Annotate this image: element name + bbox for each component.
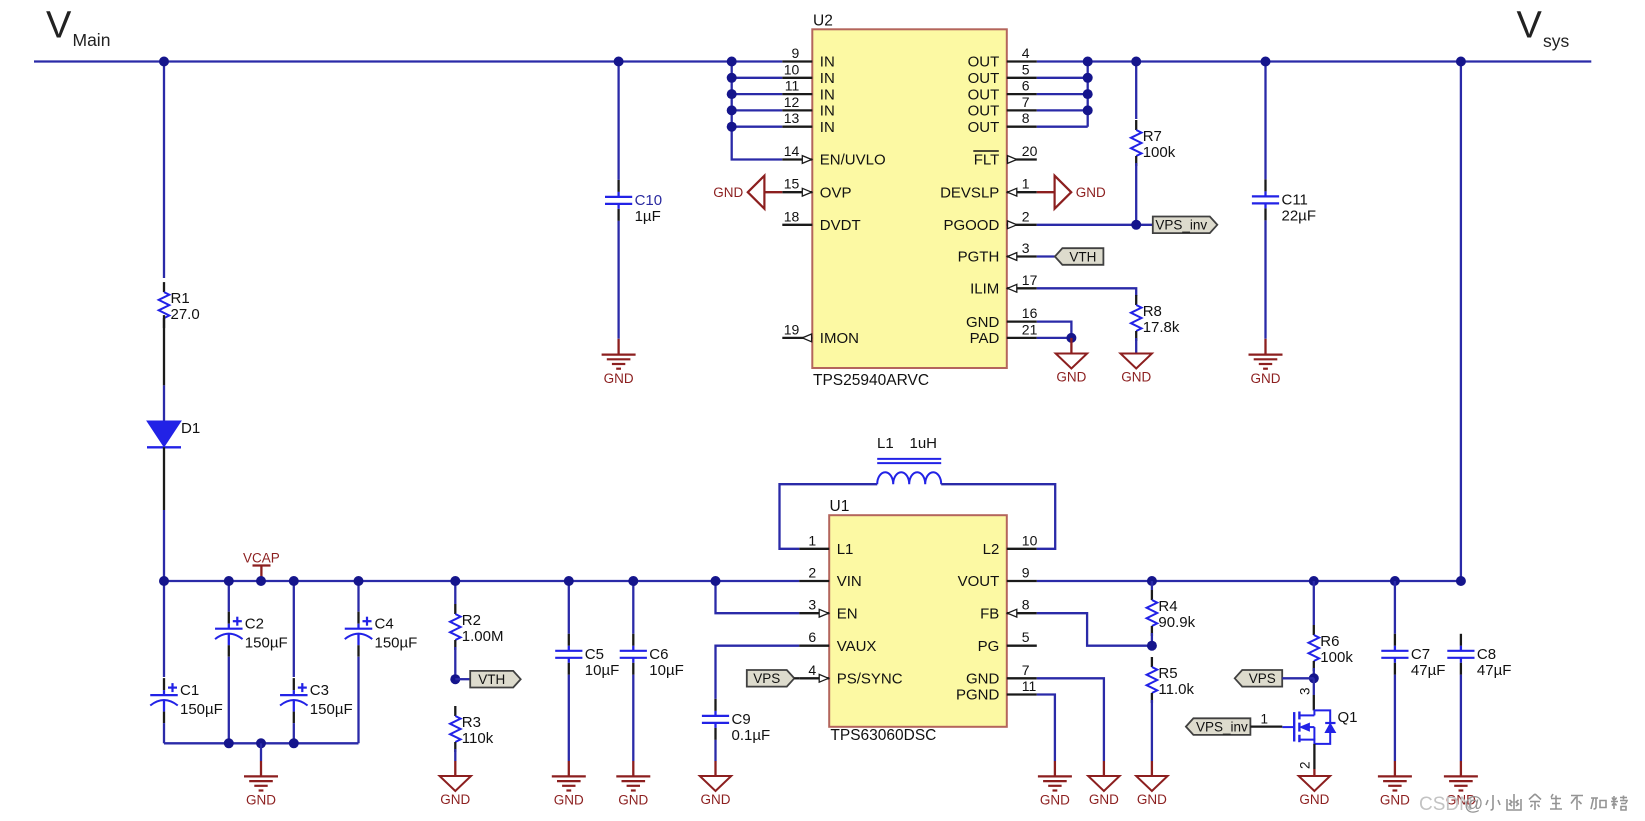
wire C4 to rail (357, 657, 359, 744)
svg-text:GND: GND (1089, 792, 1119, 807)
wire PGOOD to VPS_inv (1037, 224, 1153, 226)
U1 pin 8 FB (980, 597, 1037, 623)
svg-text:1.00M: 1.00M (462, 628, 504, 645)
gnd lead R3 (454, 761, 456, 776)
svg-text:7: 7 (1022, 94, 1030, 110)
svg-text:4: 4 (808, 662, 816, 678)
svg-text:100k: 100k (1143, 144, 1176, 161)
svg-text:11: 11 (785, 78, 800, 94)
ground earth C5 (552, 776, 586, 807)
junction dots lower bus (159, 576, 1466, 586)
svg-text:OUT: OUT (968, 103, 1000, 120)
wire Vsys column to VOUT bus (1460, 62, 1462, 582)
gnd lead pin11 (1054, 761, 1056, 776)
net label VPS_inv at PGOOD (1153, 217, 1218, 234)
wire IN fan vertical (732, 62, 783, 160)
U2 pin 11 IN (782, 78, 835, 104)
svg-text:90.9k: 90.9k (1158, 614, 1195, 631)
svg-text:GND: GND (966, 314, 1000, 331)
svg-text:150µF: 150µF (180, 701, 223, 718)
svg-text:3: 3 (1022, 240, 1030, 256)
svg-text:C9: C9 (732, 711, 751, 728)
wire R7 column from top bus (1135, 62, 1137, 120)
svg-text:1: 1 (1022, 176, 1030, 192)
junction VTH node (450, 674, 460, 684)
svg-text:R4: R4 (1158, 598, 1177, 615)
gnd flag at U2 DEVSLP pin 1 (1037, 176, 1106, 209)
gnd lead C9 (714, 761, 716, 776)
svg-text:0.1µF: 0.1µF (732, 727, 771, 744)
watermark CSDN @ xiaoyouyushengbujiatang (1419, 794, 1627, 815)
U2 pin 2 PGOOD (943, 208, 1036, 234)
U2 pin 13 IN (782, 110, 835, 136)
wire R7 to PGOOD net (1135, 163, 1137, 225)
svg-text:4: 4 (1022, 45, 1030, 61)
svg-text:13: 13 (784, 110, 800, 126)
svg-text:R1: R1 (171, 290, 190, 307)
svg-text:VAUX: VAUX (837, 638, 877, 655)
svg-text:OVP: OVP (820, 184, 852, 201)
Q1 source lead (1313, 744, 1315, 769)
svg-text:C11: C11 (1282, 192, 1308, 209)
svg-text:VTH: VTH (1069, 249, 1096, 264)
svg-text:PGTH: PGTH (958, 249, 1000, 266)
wire top bus left (VMain to U2 IN) (34, 60, 782, 62)
diode D1 (147, 420, 200, 510)
power net V_sys (1517, 5, 1570, 52)
wire C6 column from bus (632, 581, 634, 634)
svg-text:TPS63060DSC: TPS63060DSC (830, 727, 936, 744)
svg-text:PGOOD: PGOOD (943, 217, 999, 234)
wire rail to GND stem (260, 743, 262, 761)
svg-text:GND: GND (246, 793, 276, 808)
svg-text:VPS: VPS (1249, 671, 1276, 686)
U2 pin 16 GND (966, 305, 1038, 331)
svg-text:10: 10 (784, 61, 800, 77)
U2 pin 6 OUT (968, 78, 1037, 104)
ground triangle PAD (1056, 354, 1087, 385)
ground earth C11 (1249, 355, 1283, 386)
wire C5 to GND (568, 675, 570, 761)
svg-text:R8: R8 (1143, 303, 1162, 320)
U1 pin 4 PS/SYNC (799, 662, 903, 688)
junction dots OUT fan (1083, 57, 1093, 116)
svg-text:1µF: 1µF (635, 208, 661, 225)
svg-text:10µF: 10µF (649, 662, 684, 679)
wire C7 to GND (1394, 675, 1396, 761)
wire C2 to rail (228, 657, 230, 744)
wire U1 PGND pin11 down (1037, 695, 1055, 762)
svg-text:OUT: OUT (968, 86, 1000, 103)
wire OUT pin 7 branch (1037, 109, 1088, 111)
U2 pin 17 ILIM (970, 272, 1037, 298)
svg-text:VPS: VPS (753, 671, 780, 686)
svg-text:OUT: OUT (968, 70, 1000, 87)
U1 pin 10 L2 (983, 532, 1038, 558)
wire U1 GND pin7 down (1037, 678, 1104, 761)
gnd lead C5 (568, 761, 570, 776)
svg-text:9: 9 (792, 45, 800, 61)
svg-text:GND: GND (440, 792, 470, 807)
U2 pin 9 IN (782, 45, 835, 71)
svg-text:2: 2 (808, 565, 816, 581)
capacitor C2 150uF (215, 612, 288, 657)
svg-text:R2: R2 (462, 612, 481, 629)
svg-text:110k: 110k (462, 730, 494, 747)
svg-text:6: 6 (1022, 78, 1030, 94)
junction PGOOD R7 (1131, 220, 1141, 230)
svg-text:PGND: PGND (956, 687, 1000, 704)
svg-text:1uH: 1uH (910, 435, 938, 452)
wire R1 to D1 (163, 385, 165, 421)
U2 pin 21 PAD (970, 321, 1038, 347)
svg-text:L2: L2 (983, 541, 1000, 558)
svg-text:22µF: 22µF (1282, 208, 1317, 225)
resistor R8 17.8k (1131, 295, 1180, 341)
svg-text:C8: C8 (1477, 646, 1496, 663)
gnd lead R5 (1151, 761, 1153, 776)
ground earth rail (244, 776, 278, 807)
svg-text:R7: R7 (1143, 128, 1162, 145)
svg-text:R5: R5 (1158, 665, 1177, 682)
gnd lead C11 (1264, 339, 1266, 355)
svg-text:7: 7 (1022, 662, 1030, 678)
U1 pin 5 PG (978, 629, 1037, 655)
gnd lead C7 (1394, 761, 1396, 776)
resistor R4 90.9k (1147, 590, 1196, 636)
gnd flag at U2 OVP pin 15 (713, 176, 782, 209)
wire R3 to GND (454, 749, 456, 761)
op-amp U2 TPS25940ARVC body (812, 29, 1007, 368)
svg-text:VCAP: VCAP (243, 551, 280, 566)
capacitor C2 column wire (228, 581, 230, 612)
ground earth C7 (1378, 776, 1412, 807)
svg-text:V: V (1517, 5, 1543, 47)
wire IN pin 13 branch (732, 126, 783, 128)
svg-text:3: 3 (808, 597, 816, 613)
wire U1 pin1 to inductor L1 (780, 484, 878, 549)
resistor R7 100k (1131, 120, 1176, 166)
junction dots bottom rail (224, 738, 299, 748)
svg-text:150µF: 150µF (245, 635, 288, 652)
wire C9 to GND (714, 740, 716, 761)
capacitor C4 150uF (345, 612, 418, 657)
U1 pin 3 EN (799, 597, 857, 623)
ground earth pin11 (1038, 776, 1072, 807)
U1 pin 9 VOUT (958, 565, 1037, 591)
ground triangle R5 (1136, 776, 1167, 807)
svg-text:10: 10 (1022, 532, 1038, 548)
U2 pin 10 IN (782, 61, 835, 87)
wire U2 PAD pin 21 (1037, 337, 1072, 339)
junction dots IN fan (727, 57, 737, 132)
wire D1 to lower bus (163, 510, 165, 581)
svg-text:V: V (46, 5, 72, 47)
gnd lead C8 (1460, 761, 1462, 776)
svg-text:L1: L1 (877, 435, 894, 452)
svg-text:VPS_inv: VPS_inv (1196, 719, 1248, 734)
U2 pin 12 IN (782, 94, 835, 120)
U1 pin 1 L1 (799, 532, 853, 558)
svg-text:@: @ (1464, 794, 1483, 815)
wire C10 column from top bus (617, 62, 619, 180)
svg-text:TPS25940ARVC: TPS25940ARVC (813, 372, 929, 389)
svg-text:14: 14 (784, 143, 800, 159)
svg-text:OUT: OUT (968, 54, 1000, 71)
svg-text:GND: GND (618, 793, 648, 808)
gnd lead rail (260, 761, 262, 776)
net label VTH at R2 R3 (470, 671, 521, 688)
U2 pin 5 OUT (968, 61, 1037, 87)
wire C8 to GND (1460, 675, 1462, 761)
gnd lead PAD (1070, 338, 1072, 354)
gnd lead pin7 (1103, 761, 1105, 776)
wire R8 to GND (1135, 338, 1137, 354)
wire OUT fan vertical (1087, 62, 1089, 127)
svg-text:VPS_inv: VPS_inv (1155, 218, 1207, 233)
svg-text:GND: GND (1251, 371, 1281, 386)
resistor R2 1.00M (450, 604, 504, 650)
U2 pin 15 OVP (782, 176, 851, 202)
inductor L1 1uH (877, 435, 941, 484)
svg-text:GND: GND (1380, 793, 1410, 808)
ground earth C6 (616, 776, 650, 807)
capacitor C1 150uF column wire (163, 581, 165, 677)
svg-text:ILIM: ILIM (970, 281, 999, 298)
svg-text:8: 8 (1022, 110, 1030, 126)
wire OUT pin 5 branch (1037, 77, 1088, 79)
svg-text:150µF: 150µF (375, 635, 418, 652)
transistor Q1 MOSFET (1282, 709, 1357, 744)
ground triangle pin7 (1088, 776, 1119, 807)
U2 pin 19 IMON (782, 321, 859, 347)
svg-text:IMON: IMON (820, 330, 859, 347)
svg-text:GND: GND (1056, 370, 1086, 385)
svg-text:VTH: VTH (478, 672, 505, 687)
junction PAD (1066, 333, 1076, 343)
wire lower bus left (VCAP rail) (164, 580, 799, 582)
svg-text:10µF: 10µF (585, 662, 620, 679)
wire IN pin 10 branch (732, 77, 783, 79)
svg-text:21: 21 (1022, 321, 1038, 337)
svg-text:IN: IN (820, 119, 835, 136)
wire C6 to GND (632, 675, 634, 761)
svg-text:L1: L1 (837, 541, 854, 558)
capacitor C10 1uF (605, 180, 662, 225)
wire R4 to node (1151, 633, 1153, 646)
svg-text:1: 1 (808, 532, 816, 548)
wire C1 to rail (163, 723, 165, 743)
wire VPS tag to pin 4 (794, 677, 799, 679)
op-amp U1 TPS63060DSC body (829, 515, 1007, 727)
svg-text:GND: GND (713, 185, 743, 200)
U2 pin 4 OUT (968, 45, 1037, 71)
svg-text:12: 12 (784, 94, 800, 110)
svg-text:150µF: 150µF (310, 701, 353, 718)
wire VTH node to tag (455, 678, 470, 680)
svg-text:Main: Main (73, 30, 111, 50)
svg-text:U1: U1 (830, 498, 850, 515)
wire PGTH to VTH tag (1037, 255, 1055, 257)
wire R6 column from VOUT bus (1313, 581, 1315, 625)
svg-text:5: 5 (1022, 629, 1030, 645)
svg-text:DVDT: DVDT (820, 217, 861, 234)
wire top bus right (U2 OUT to Vsys) (1037, 60, 1592, 62)
junction VPS node (1309, 673, 1319, 683)
wire IN pin 12 branch (732, 109, 783, 111)
svg-text:R6: R6 (1320, 633, 1339, 650)
svg-text:GND: GND (966, 671, 1000, 688)
capacitor C5 10uF (555, 634, 619, 679)
svg-text:IN: IN (820, 86, 835, 103)
svg-text:GND: GND (604, 371, 634, 386)
svg-text:C4: C4 (375, 616, 394, 633)
svg-text:C6: C6 (649, 646, 668, 663)
wire R6 to VPS node (1313, 668, 1315, 678)
svg-text:18: 18 (784, 208, 800, 224)
Q1 drain lead (1313, 695, 1315, 710)
capacitor C8 47uF (1447, 634, 1511, 679)
wire U2 GND pin 16 to PAD (1037, 322, 1072, 338)
wire R2 to VTH node (454, 647, 456, 679)
gnd lead C6 (632, 761, 634, 776)
junction R4 R5 node (1147, 641, 1157, 651)
wire VAUX branch to C9 (716, 646, 800, 699)
U2 pin 8 OUT (968, 110, 1037, 136)
svg-text:GND: GND (554, 793, 584, 808)
wire IN pin 11 branch (732, 93, 783, 95)
wire VPS tag to node (1282, 677, 1314, 679)
svg-text:47µF: 47µF (1477, 662, 1512, 679)
wire VPS_inv tag to Q1 gate (1250, 725, 1282, 727)
svg-text:47µF: 47µF (1411, 662, 1446, 679)
svg-text:C2: C2 (245, 616, 264, 633)
svg-text:C1: C1 (180, 682, 199, 699)
ground triangle R8 (1121, 354, 1152, 385)
ground triangle Q1 (1299, 776, 1330, 807)
svg-text:FLT: FLT (974, 152, 1000, 169)
svg-text:EN/UVLO: EN/UVLO (820, 152, 886, 169)
U1 pin 7 GND (966, 662, 1037, 688)
wire C11 column from top bus (1264, 62, 1266, 180)
svg-text:GND: GND (1076, 185, 1106, 200)
svg-text:FB: FB (980, 605, 999, 622)
ground triangle R3 (440, 776, 471, 807)
net label VPS at Q1 (1235, 670, 1283, 687)
svg-text:GND: GND (1299, 792, 1329, 807)
svg-text:C5: C5 (585, 646, 604, 663)
wire VPS node to Q1 drain (1313, 678, 1315, 695)
net label VPS at PS/SYNC (747, 670, 795, 687)
svg-text:9: 9 (1022, 565, 1030, 581)
svg-text:3: 3 (1298, 687, 1313, 695)
resistor R6 100k (1309, 625, 1354, 671)
power net VCAP (243, 551, 280, 577)
wire lower bus right (VOUT rail) (1037, 580, 1461, 582)
U1 pin 6 VAUX (799, 629, 876, 655)
U2 pin 14 EN/UVLO (782, 143, 885, 169)
wire C10 to GND (617, 221, 619, 339)
wire EN branch (716, 581, 800, 613)
svg-text:C7: C7 (1411, 646, 1430, 663)
svg-text:2: 2 (1298, 761, 1313, 769)
svg-text:GND: GND (1137, 792, 1167, 807)
capacitor C3 column wire (293, 581, 295, 677)
svg-text:11.0k: 11.0k (1158, 681, 1194, 698)
gnd lead Q1 (1313, 769, 1315, 776)
svg-text:sys: sys (1543, 31, 1570, 51)
svg-text:C10: C10 (635, 192, 663, 209)
ground earth C8 (1444, 776, 1478, 807)
wire C11 to GND (1264, 220, 1266, 338)
wire C7 column from VOUT bus (1394, 581, 1396, 634)
svg-text:19: 19 (784, 321, 800, 337)
resistor R5 11.0k (1147, 657, 1195, 703)
svg-text:IN: IN (820, 70, 835, 87)
wire OUT pin 6 branch (1037, 93, 1088, 95)
wire R2 column from bus (454, 581, 456, 604)
U2 pin 18 DVDT (782, 208, 860, 234)
svg-text:IN: IN (820, 54, 835, 71)
U2 pin 3 PGTH (958, 240, 1037, 266)
svg-text:1: 1 (1261, 712, 1269, 727)
capacitor C4 column wire (357, 581, 359, 612)
gnd lead C10 (617, 339, 619, 355)
svg-text:R3: R3 (462, 714, 481, 731)
U1 pin 2 VIN (799, 565, 862, 591)
svg-text:5: 5 (1022, 61, 1030, 77)
ground earth C10 (602, 355, 636, 386)
net label VPS_inv at Q1 gate (1186, 718, 1251, 735)
svg-text:11: 11 (1022, 678, 1037, 694)
svg-text:20: 20 (1022, 143, 1038, 159)
wire R4 column from VOUT bus (1151, 581, 1153, 590)
U2 pin 1 DEVSLP (940, 176, 1037, 202)
power net V_Main (46, 5, 110, 51)
capacitor C1 150uF (150, 678, 223, 723)
svg-text:VOUT: VOUT (958, 573, 1000, 590)
U2 pin 7 OUT (968, 94, 1037, 120)
wire R5 to GND (1151, 700, 1153, 761)
svg-text:6: 6 (808, 629, 816, 645)
wire bottom rail (164, 742, 359, 744)
svg-text:PS/SYNC: PS/SYNC (837, 671, 903, 688)
capacitor C6 10uF (620, 634, 684, 679)
resistor R1 27.0 (159, 282, 200, 328)
ground triangle C9 (700, 776, 731, 807)
svg-text:16: 16 (1022, 305, 1038, 321)
capacitor C7 47uF (1381, 634, 1445, 679)
wire C3 to rail (293, 723, 295, 743)
svg-text:IN: IN (820, 103, 835, 120)
svg-text:OUT: OUT (968, 119, 1000, 136)
svg-text:17: 17 (1022, 272, 1038, 288)
svg-text:VIN: VIN (837, 573, 862, 590)
wire FB to R4 R5 node (1037, 613, 1152, 646)
svg-text:EN: EN (837, 605, 858, 622)
wire ILIM to R8 (1037, 288, 1136, 296)
resistor R3 110k (450, 706, 494, 752)
svg-text:PAD: PAD (970, 330, 1000, 347)
svg-text:27.0: 27.0 (171, 306, 200, 323)
capacitor C3 150uF (280, 678, 353, 723)
wire OUT pin 8 branch (1037, 126, 1088, 128)
svg-text:DEVSLP: DEVSLP (940, 184, 999, 201)
capacitor C9 0.1uF (702, 699, 770, 744)
net label VTH at PGTH (1055, 248, 1104, 265)
svg-text:Q1: Q1 (1338, 709, 1358, 726)
wire R1 column from top bus (163, 62, 165, 279)
